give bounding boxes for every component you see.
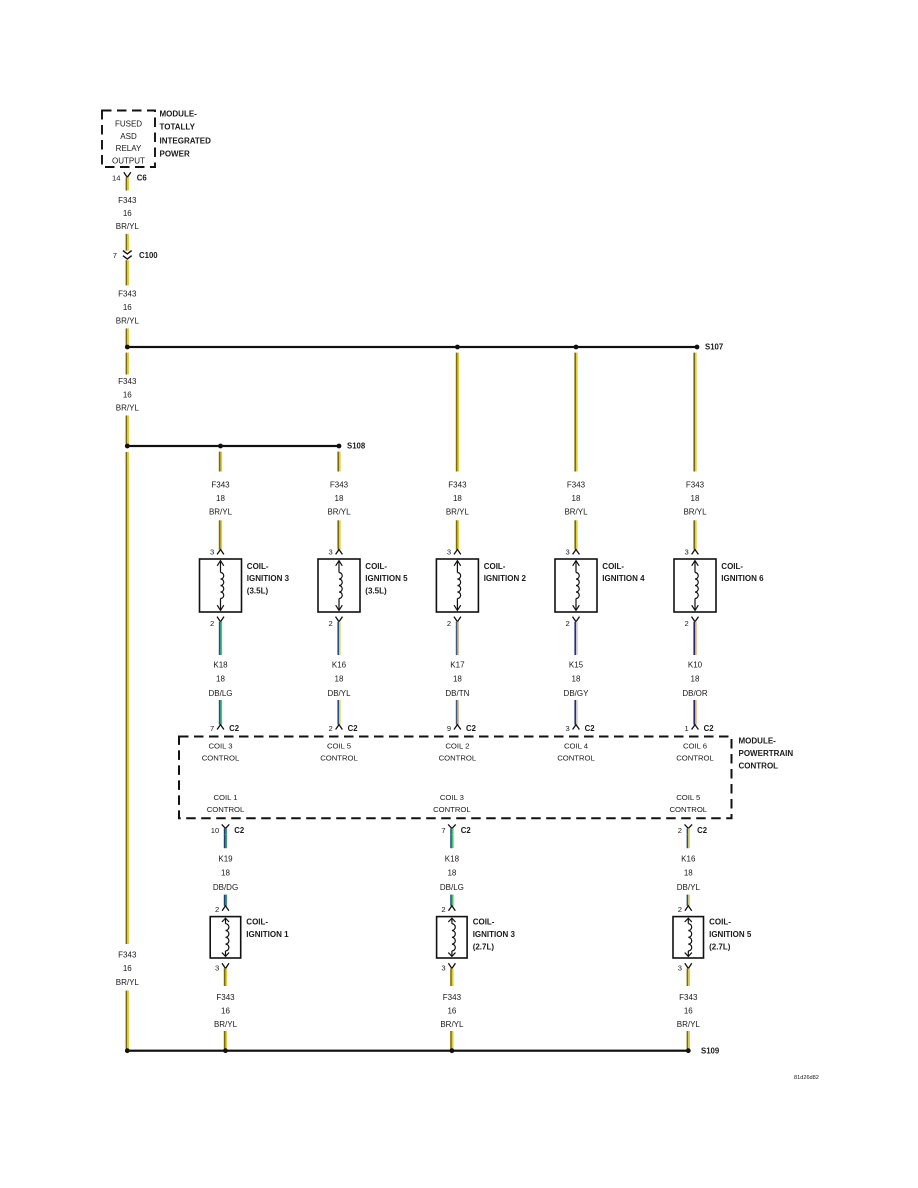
splice S109 bus wire <box>127 1050 688 1052</box>
svg-text:INTEGRATED: INTEGRATED <box>160 136 212 145</box>
svg-text:K19: K19 <box>218 855 233 864</box>
ignition coil IGNITION 3 box <box>200 559 242 612</box>
svg-text:COIL 3: COIL 3 <box>440 793 464 802</box>
svg-text:81d26d82: 81d26d82 <box>794 1075 819 1081</box>
svg-text:CONTROL: CONTROL <box>739 762 779 771</box>
svg-text:7: 7 <box>210 724 214 733</box>
wire K17 18 DB/TN segment from coil pin 2 (column 3) <box>456 622 459 655</box>
svg-text:K16: K16 <box>681 855 696 864</box>
svg-text:(2.7L): (2.7L) <box>473 942 495 951</box>
svg-text:10: 10 <box>211 826 219 835</box>
svg-text:BR/YL: BR/YL <box>327 507 351 516</box>
svg-text:CONTROL: CONTROL <box>202 754 240 763</box>
svg-text:ASD: ASD <box>120 132 137 141</box>
svg-text:C6: C6 <box>137 174 148 183</box>
pin 2 connector symbol of bottom IGNITION 3 <box>449 906 456 911</box>
svg-text:2: 2 <box>684 619 688 628</box>
splice S108 bus wire <box>127 445 339 447</box>
junction dot S107 at coil-4 branch <box>574 345 579 350</box>
svg-text:3: 3 <box>684 547 688 556</box>
PCM C2 entry pin symbol (column 4) <box>573 725 580 730</box>
wire label F343 16 BR/YL (C100 to S107) <box>116 290 140 326</box>
svg-text:OUTPUT: OUTPUT <box>112 156 145 165</box>
svg-text:COIL 4: COIL 4 <box>564 742 589 751</box>
svg-text:DB/YL: DB/YL <box>327 689 351 698</box>
coil name label COIL- IGNITION 5 (3.5L) <box>365 562 408 596</box>
PCM C2 output pin symbol (bottom column 2) <box>448 824 456 834</box>
svg-text:3: 3 <box>447 547 451 556</box>
junction dot S109 right end (coil-5 branch) <box>686 1048 691 1053</box>
svg-text:IGNITION 3: IGNITION 3 <box>473 930 516 939</box>
svg-text:3: 3 <box>210 547 214 556</box>
wire K17 segment into PCM connector C2 (column 3) <box>456 700 459 725</box>
module PCM name label: MODULE-POWERTRAIN CONTROL <box>739 737 794 771</box>
svg-text:COIL-: COIL- <box>246 918 268 927</box>
pin 3 connector symbol of bottom IGNITION 1 <box>222 963 229 986</box>
wire K10 18 DB/OR segment from coil pin 2 (column 5) <box>693 622 696 655</box>
junction dot S109 left (trunk) <box>125 1048 130 1053</box>
svg-text:COIL 2: COIL 2 <box>445 742 469 751</box>
wire K18 segment into PCM connector C2 (column 1) <box>219 700 222 725</box>
svg-text:POWERTRAIN: POWERTRAIN <box>739 749 794 758</box>
PCM input label COIL 6 CONTROL <box>676 742 714 763</box>
svg-text:F343: F343 <box>567 480 586 489</box>
svg-text:BR/YL: BR/YL <box>214 1020 238 1029</box>
ignition coil IGNITION 1 box (bottom) <box>210 917 241 958</box>
svg-text:CONTROL: CONTROL <box>557 754 595 763</box>
svg-text:DB/LG: DB/LG <box>208 689 232 698</box>
wire K19 18 DB/DG segment from PCM (bottom column 1) <box>224 834 227 848</box>
wire F343 trunk segment below S107 <box>126 353 129 375</box>
wire F343 segment into splice S109 (bottom column 1) <box>224 1031 227 1051</box>
junction dot S108 right end (coil-5 branch) <box>337 444 342 449</box>
svg-text:16: 16 <box>123 303 132 312</box>
svg-text:IGNITION 5: IGNITION 5 <box>709 930 752 939</box>
pin 2 connector symbol of IGNITION 2 <box>454 617 461 622</box>
svg-text:K15: K15 <box>569 660 584 669</box>
ignition coil IGNITION 5 box <box>318 559 360 612</box>
wire F343 18 BR/YL branch segment from S108 (top coil column 2) <box>337 452 340 472</box>
wire K18 segment to coil pin 2 (bottom column 2) <box>450 895 453 906</box>
svg-text:COIL 3: COIL 3 <box>208 742 232 751</box>
coil name label COIL- IGNITION 4 <box>602 562 645 583</box>
svg-text:COIL-: COIL- <box>365 562 387 571</box>
pin 3 connector symbol of IGNITION 5 <box>336 550 343 555</box>
svg-text:18: 18 <box>216 675 225 684</box>
PCM output label COIL 5 CONTROL <box>670 793 708 814</box>
wire F343 segment into splice S107 <box>126 328 129 347</box>
PCM output label COIL 3 CONTROL <box>433 793 471 814</box>
svg-text:3: 3 <box>565 547 569 556</box>
svg-text:BR/YL: BR/YL <box>209 507 233 516</box>
svg-text:18: 18 <box>453 494 462 503</box>
wire K16 segment into PCM connector C2 (column 2) <box>337 700 340 725</box>
wire label F343 18 BR/YL (column 1) <box>209 480 233 516</box>
coil name label COIL- IGNITION 3 (3.5L) <box>247 562 290 596</box>
in-line connector C100 symbol <box>123 251 132 259</box>
svg-text:COIL-: COIL- <box>473 918 495 927</box>
wire F343 segment to coil pin 3 (column 3) <box>456 520 459 549</box>
ignition coil IGNITION 5 box (bottom) <box>673 917 704 958</box>
svg-text:BR/YL: BR/YL <box>683 507 707 516</box>
svg-text:16: 16 <box>221 1007 230 1016</box>
svg-text:2: 2 <box>678 826 682 835</box>
svg-text:CONTROL: CONTROL <box>676 754 714 763</box>
svg-text:16: 16 <box>123 964 132 973</box>
svg-text:C2: C2 <box>229 724 240 733</box>
svg-text:COIL 1: COIL 1 <box>213 793 237 802</box>
svg-text:18: 18 <box>335 675 344 684</box>
wire label K16 18 DB/YL (column 2) <box>327 660 351 698</box>
svg-text:COIL 6: COIL 6 <box>683 742 707 751</box>
svg-text:BR/YL: BR/YL <box>564 507 588 516</box>
svg-text:3: 3 <box>565 724 569 733</box>
wire F343 trunk segment into splice S109 <box>126 991 129 1051</box>
svg-text:IGNITION 5: IGNITION 5 <box>365 574 408 583</box>
svg-text:16: 16 <box>123 390 132 399</box>
svg-text:18: 18 <box>335 494 344 503</box>
pin 3 connector symbol of IGNITION 2 <box>454 550 461 555</box>
svg-text:2: 2 <box>678 905 682 914</box>
svg-text:18: 18 <box>221 869 230 878</box>
svg-text:F343: F343 <box>118 951 137 960</box>
svg-text:S109: S109 <box>701 1047 720 1056</box>
svg-text:TOTALLY: TOTALLY <box>160 123 196 132</box>
wire K15 segment into PCM connector C2 (column 4) <box>574 700 577 725</box>
coil name label COIL- IGNITION 2 <box>484 562 527 583</box>
wire K16 18 DB/YL segment from PCM (bottom column 3) <box>687 834 690 848</box>
wire F343 segment to coil pin 3 (column 1) <box>219 520 222 549</box>
module PCM dashed box <box>179 737 732 819</box>
wire K16 segment to coil pin 2 (bottom column 3) <box>687 895 690 906</box>
coil name label COIL- IGNITION 1 (bottom) <box>246 918 289 939</box>
wire label K19 18 DB/DG (bottom column 1) <box>213 855 238 893</box>
svg-text:DB/TN: DB/TN <box>445 689 469 698</box>
pin 3 connector symbol of IGNITION 3 <box>217 550 224 555</box>
pin 2 connector symbol of bottom IGNITION 1 <box>222 906 229 911</box>
module TIPM name label: MODULE-TOTALLY INTEGRATED POWER <box>160 110 212 159</box>
svg-text:BR/YL: BR/YL <box>116 222 140 231</box>
svg-text:18: 18 <box>572 675 581 684</box>
pin 3 connector symbol of IGNITION 4 <box>573 550 580 555</box>
svg-text:2: 2 <box>215 905 219 914</box>
pin 3 connector symbol of bottom IGNITION 5 <box>685 963 692 986</box>
pin 2 connector symbol of bottom IGNITION 5 <box>685 906 692 911</box>
svg-text:COIL-: COIL- <box>602 562 624 571</box>
junction dot S107 left (trunk) <box>125 345 130 350</box>
svg-text:18: 18 <box>691 675 700 684</box>
wire label F343 16 BR/YL (bottom column 3) <box>677 993 701 1029</box>
svg-text:3: 3 <box>328 547 332 556</box>
wire F343 18 BR/YL branch segment from S108 (top coil column 1) <box>219 452 222 472</box>
svg-text:18: 18 <box>572 494 581 503</box>
wire K16 18 DB/YL segment from coil pin 2 (column 2) <box>337 622 340 655</box>
PCM C2 entry pin symbol (column 2) <box>336 725 343 730</box>
PCM input label COIL 4 CONTROL <box>557 742 595 763</box>
svg-text:CONTROL: CONTROL <box>320 754 358 763</box>
wire K15 18 DB/GY segment from coil pin 2 (column 4) <box>574 622 577 655</box>
pin 2 connector symbol of IGNITION 3 <box>217 617 224 622</box>
wire F343 18 BR/YL branch segment from S107 (top coil column 5) <box>693 353 696 472</box>
svg-text:BR/YL: BR/YL <box>116 317 140 326</box>
svg-text:3: 3 <box>678 964 682 973</box>
wire F343 segment C6-labels to C100 <box>126 234 129 251</box>
wire label K17 18 DB/TN (column 3) <box>445 660 469 698</box>
svg-text:18: 18 <box>684 869 693 878</box>
wire label F343 16 BR/YL (bottom column 1) <box>214 993 238 1029</box>
svg-text:F343: F343 <box>330 480 349 489</box>
svg-text:(3.5L): (3.5L) <box>247 587 269 596</box>
junction dot S108 at coil-3 branch <box>218 444 223 449</box>
ignition coil IGNITION 3 box (bottom) <box>437 917 468 958</box>
svg-text:DB/DG: DB/DG <box>213 883 238 892</box>
connector C6 half-connector symbol <box>124 172 131 190</box>
junction dot S109 at coil-1 branch <box>223 1048 228 1053</box>
svg-text:F343: F343 <box>211 480 230 489</box>
coil name label COIL- IGNITION 5 (2.7L) (bottom) <box>709 918 752 952</box>
svg-text:7: 7 <box>113 251 117 260</box>
ignition coil IGNITION 2 box <box>436 559 478 612</box>
svg-text:C2: C2 <box>704 724 715 733</box>
svg-text:2: 2 <box>447 619 451 628</box>
svg-text:F343: F343 <box>118 377 137 386</box>
svg-text:F343: F343 <box>118 196 137 205</box>
junction dot S108 left (trunk) <box>125 444 130 449</box>
svg-text:DB/LG: DB/LG <box>440 883 464 892</box>
svg-text:DB/YL: DB/YL <box>677 883 701 892</box>
wire label F343 16 BR/YL (trunk to S109) <box>116 951 140 987</box>
wire label F343 16 BR/YL (C6 to C100) <box>116 196 140 231</box>
wire K19 segment to coil pin 2 (bottom column 1) <box>224 895 227 906</box>
wire F343 segment into splice S109 (bottom column 2) <box>450 1031 453 1051</box>
svg-text:IGNITION 3: IGNITION 3 <box>247 574 290 583</box>
wire label K18 18 DB/LG (column 1) <box>208 660 232 698</box>
svg-text:IGNITION 4: IGNITION 4 <box>602 574 645 583</box>
svg-text:18: 18 <box>691 494 700 503</box>
svg-text:2: 2 <box>328 724 332 733</box>
svg-text:COIL 5: COIL 5 <box>676 793 700 802</box>
svg-text:S108: S108 <box>347 442 366 451</box>
svg-text:F343: F343 <box>679 993 698 1002</box>
wire label F343 16 BR/YL (bottom column 2) <box>440 993 464 1029</box>
svg-text:16: 16 <box>123 209 132 218</box>
svg-text:BR/YL: BR/YL <box>677 1020 701 1029</box>
svg-text:BR/YL: BR/YL <box>116 978 140 987</box>
svg-text:F343: F343 <box>443 993 462 1002</box>
junction dot S107 right end (coil-6 branch) <box>695 345 700 350</box>
svg-text:K16: K16 <box>332 660 347 669</box>
svg-text:2: 2 <box>565 619 569 628</box>
PCM output label COIL 1 CONTROL <box>207 793 245 814</box>
pin 2 connector symbol of IGNITION 4 <box>573 617 580 622</box>
wire F343 segment to coil pin 3 (column 4) <box>574 520 577 549</box>
svg-text:RELAY: RELAY <box>116 144 142 153</box>
svg-text:COIL-: COIL- <box>247 562 269 571</box>
svg-text:(2.7L): (2.7L) <box>709 942 731 951</box>
wire label F343 18 BR/YL (column 4) <box>564 480 588 516</box>
wire label F343 16 BR/YL (S107 to S108) <box>116 377 140 412</box>
svg-text:COIL-: COIL- <box>709 918 731 927</box>
svg-text:18: 18 <box>447 869 456 878</box>
svg-text:C2: C2 <box>234 826 245 835</box>
svg-text:7: 7 <box>441 826 445 835</box>
wire F343 segment into splice S109 (bottom column 3) <box>687 1031 690 1051</box>
svg-text:3: 3 <box>215 964 219 973</box>
svg-text:CONTROL: CONTROL <box>439 754 477 763</box>
svg-text:COIL 5: COIL 5 <box>327 742 351 751</box>
svg-text:C2: C2 <box>348 724 359 733</box>
wire label K10 18 DB/OR (column 5) <box>682 660 708 698</box>
wire label K18 18 DB/LG (bottom column 2) <box>440 855 464 893</box>
wire F343 18 BR/YL branch segment from S107 (top coil column 4) <box>574 353 577 472</box>
pin 3 connector symbol of IGNITION 6 <box>692 550 699 555</box>
ignition coil IGNITION 6 box <box>674 559 716 612</box>
svg-text:COIL-: COIL- <box>484 562 506 571</box>
svg-text:18: 18 <box>216 494 225 503</box>
svg-text:BR/YL: BR/YL <box>446 507 470 516</box>
svg-text:F343: F343 <box>448 480 467 489</box>
coil name label COIL- IGNITION 3 (2.7L) (bottom) <box>473 918 516 952</box>
svg-text:DB/OR: DB/OR <box>682 689 708 698</box>
wire label F343 18 BR/YL (column 5) <box>683 480 707 516</box>
svg-text:C2: C2 <box>466 724 477 733</box>
svg-text:18: 18 <box>453 675 462 684</box>
svg-text:14: 14 <box>112 174 120 183</box>
wire F343 segment to coil pin 3 (column 5) <box>693 520 696 549</box>
wire label F343 18 BR/YL (column 3) <box>446 480 470 516</box>
svg-text:POWER: POWER <box>160 150 190 159</box>
PCM C2 output pin symbol (bottom column 3) <box>685 824 693 834</box>
junction dot S107 at coil-2 branch <box>455 345 460 350</box>
wire F343 18 BR/YL branch segment from S107 (top coil column 3) <box>456 353 459 472</box>
pin 2 connector symbol of IGNITION 5 <box>336 617 343 622</box>
ignition coil IGNITION 4 box <box>555 559 597 612</box>
PCM C2 entry pin symbol (column 1) <box>217 725 224 730</box>
wire K18 18 DB/LG segment from PCM (bottom column 2) <box>450 834 453 848</box>
svg-text:9: 9 <box>447 724 451 733</box>
svg-text:1: 1 <box>684 724 688 733</box>
splice S107 bus wire <box>127 346 697 348</box>
svg-text:FUSED: FUSED <box>115 120 142 129</box>
PCM C2 output pin symbol (bottom column 1) <box>222 824 230 834</box>
wire K18 18 DB/LG segment from coil pin 2 (column 1) <box>219 622 222 655</box>
svg-text:K18: K18 <box>445 855 460 864</box>
svg-text:K10: K10 <box>688 660 703 669</box>
svg-text:3: 3 <box>441 964 445 973</box>
svg-text:MODULE-: MODULE- <box>739 737 777 746</box>
wire label K16 18 DB/YL (bottom column 3) <box>677 855 701 893</box>
wire F343 trunk segment into splice S108 <box>126 416 129 447</box>
wire K10 segment into PCM connector C2 (column 5) <box>693 700 696 725</box>
svg-text:K18: K18 <box>213 660 228 669</box>
svg-text:COIL-: COIL- <box>721 562 743 571</box>
svg-text:C2: C2 <box>697 826 708 835</box>
wire label K15 18 DB/GY (column 4) <box>564 660 590 698</box>
svg-text:2: 2 <box>441 905 445 914</box>
svg-text:MODULE-: MODULE- <box>160 110 198 119</box>
svg-text:F343: F343 <box>216 993 235 1002</box>
PCM input label COIL 5 CONTROL <box>320 742 358 763</box>
svg-text:DB/GY: DB/GY <box>564 689 590 698</box>
svg-text:(3.5L): (3.5L) <box>365 587 387 596</box>
junction dot S109 at coil-3 branch <box>450 1048 455 1053</box>
PCM input label COIL 3 CONTROL <box>202 742 240 763</box>
svg-text:16: 16 <box>447 1007 456 1016</box>
svg-text:IGNITION 6: IGNITION 6 <box>721 574 764 583</box>
svg-text:2: 2 <box>210 619 214 628</box>
wire label F343 18 BR/YL (column 2) <box>327 480 351 516</box>
pin 3 connector symbol of bottom IGNITION 3 <box>448 963 455 986</box>
wire F343 segment below C100 <box>126 260 129 285</box>
PCM C2 entry pin symbol (column 5) <box>692 725 699 730</box>
pin 2 connector symbol of IGNITION 6 <box>692 617 699 622</box>
svg-text:C2: C2 <box>585 724 596 733</box>
coil name label COIL- IGNITION 6 <box>721 562 764 583</box>
svg-text:CONTROL: CONTROL <box>207 805 245 814</box>
svg-text:16: 16 <box>684 1007 693 1016</box>
svg-text:CONTROL: CONTROL <box>670 805 708 814</box>
svg-text:2: 2 <box>328 619 332 628</box>
svg-text:F343: F343 <box>118 290 137 299</box>
svg-text:BR/YL: BR/YL <box>116 404 140 413</box>
svg-text:S107: S107 <box>705 343 723 352</box>
wire F343 segment to coil pin 3 (column 2) <box>337 520 340 549</box>
svg-text:C2: C2 <box>461 826 472 835</box>
PCM input label COIL 2 CONTROL <box>439 742 477 763</box>
svg-text:CONTROL: CONTROL <box>433 805 471 814</box>
svg-text:K17: K17 <box>450 660 465 669</box>
PCM C2 entry pin symbol (column 3) <box>454 725 461 730</box>
svg-text:C100: C100 <box>139 251 158 260</box>
svg-text:BR/YL: BR/YL <box>440 1020 464 1029</box>
svg-text:F343: F343 <box>686 480 705 489</box>
svg-text:IGNITION 1: IGNITION 1 <box>246 930 289 939</box>
module TIPM box: FUSED ASD RELAY OUTPUT <box>102 111 155 168</box>
svg-text:IGNITION 2: IGNITION 2 <box>484 574 527 583</box>
wire F343 trunk long segment S108 down to lower labels <box>126 452 129 944</box>
